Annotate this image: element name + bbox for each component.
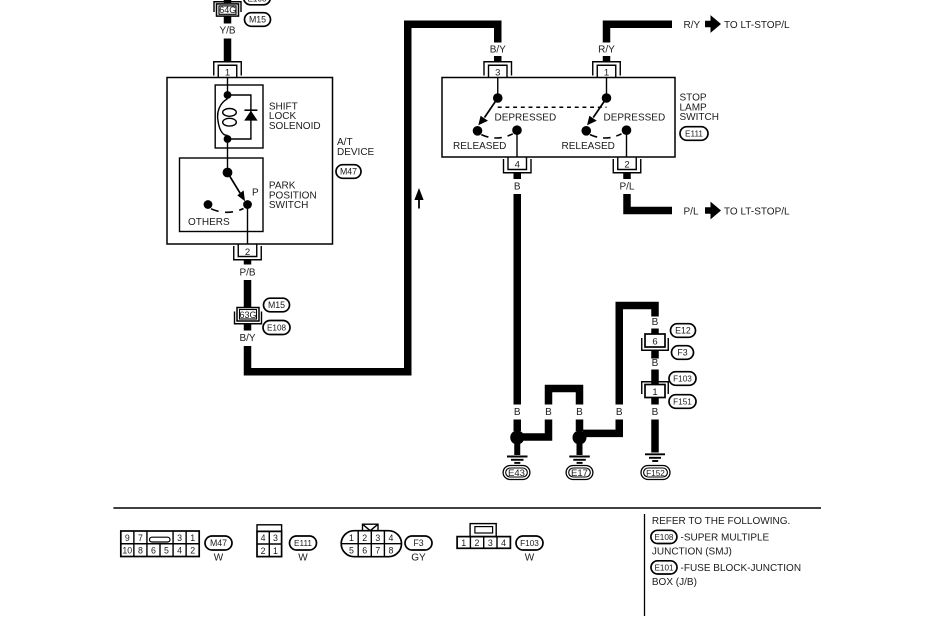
svg-text:JUNCTION (SMJ): JUNCTION (SMJ)	[652, 547, 732, 558]
svg-text:F103: F103	[673, 375, 692, 384]
svg-text:SWITCH: SWITCH	[680, 112, 719, 123]
svg-text:TO LT-STOP/L: TO LT-STOP/L	[724, 20, 790, 31]
svg-text:3: 3	[488, 538, 493, 548]
svg-text:E108: E108	[654, 533, 674, 542]
svg-text:RELEASED: RELEASED	[562, 141, 615, 152]
wire pin1 to solenoid	[227, 78, 229, 96]
svg-text:M47: M47	[340, 167, 357, 177]
node top of solenoid	[224, 91, 232, 99]
svg-text:M15: M15	[268, 300, 285, 310]
svg-text:P/L: P/L	[684, 207, 699, 218]
svg-text:REFER TO THE FOLLOWING.: REFER TO THE FOLLOWING.	[652, 516, 790, 527]
svg-text:5: 5	[164, 546, 169, 556]
svg-text:63G: 63G	[239, 310, 256, 320]
svg-text:4: 4	[177, 546, 182, 556]
wire stub 64G down	[224, 16, 232, 23]
svg-text:R/Y: R/Y	[598, 45, 615, 56]
svg-text:P: P	[252, 188, 259, 199]
connector 63G (SMJ terminal)	[235, 308, 262, 324]
connector E43 oval	[503, 466, 530, 480]
svg-text:-SUPER MULTIPLE: -SUPER MULTIPLE	[681, 533, 770, 544]
connector F3 oval	[672, 346, 694, 360]
connector 64G (SMJ terminal)	[214, 2, 241, 16]
pin 2 connector of stop lamp switch	[613, 157, 641, 173]
connector M47 oval	[336, 165, 361, 179]
wire P/B to 63G	[244, 280, 252, 308]
svg-text:RELEASED: RELEASED	[453, 141, 506, 152]
ground E43	[507, 444, 528, 463]
wire stub to pin 3	[494, 56, 502, 62]
svg-text:4: 4	[515, 160, 520, 171]
svg-text:DEPRESSED: DEPRESSED	[604, 113, 666, 124]
svg-text:1: 1	[190, 533, 195, 543]
svg-text:F3: F3	[677, 348, 687, 358]
switch arm to P	[228, 173, 246, 202]
reference E108 oval	[651, 530, 677, 543]
left contact RELEASED	[473, 126, 483, 136]
svg-text:W: W	[298, 553, 308, 564]
svg-text:1: 1	[461, 538, 466, 548]
connector F152 oval	[641, 466, 670, 480]
wire B down to ground junction	[514, 194, 522, 405]
left contact DEPRESSED	[512, 125, 522, 135]
wire stub pin 2	[244, 260, 252, 265]
svg-text:BOX (J/B): BOX (J/B)	[652, 577, 697, 588]
svg-text:SWITCH: SWITCH	[269, 200, 308, 211]
node bottom of solenoid	[224, 135, 232, 143]
connector M15 oval (63G)	[264, 298, 290, 312]
solenoid coil	[218, 99, 237, 136]
connector M15 oval	[245, 13, 271, 27]
legend connector M47 pinout	[121, 531, 199, 557]
reference block divider	[644, 514, 646, 616]
pin 4 connector of stop lamp switch	[504, 157, 532, 173]
svg-text:1: 1	[349, 533, 354, 543]
svg-text:E101: E101	[654, 564, 674, 573]
svg-text:B/Y: B/Y	[490, 45, 506, 56]
wire P/L bend to right	[627, 194, 672, 211]
svg-text:W: W	[525, 553, 535, 564]
svg-text:5: 5	[349, 546, 354, 556]
svg-text:W: W	[214, 553, 224, 564]
svg-text:3: 3	[177, 533, 182, 543]
svg-text:2: 2	[362, 533, 367, 543]
left switch common node	[493, 93, 503, 103]
pin 3 connector of stop lamp switch	[484, 62, 512, 79]
svg-text:4: 4	[261, 533, 266, 543]
svg-text:2: 2	[475, 538, 480, 548]
arrow to LT-STOP/L (bottom)	[705, 202, 721, 220]
contact OTHERS	[204, 200, 213, 209]
svg-text:10: 10	[122, 546, 132, 556]
wire solenoid to park switch	[227, 139, 229, 173]
svg-text:7: 7	[375, 546, 380, 556]
connector F151 oval	[669, 395, 696, 409]
node E43 junction	[510, 431, 524, 445]
svg-text:DEVICE: DEVICE	[337, 147, 375, 158]
right contact RELEASED	[581, 126, 591, 136]
svg-text:9: 9	[125, 533, 130, 543]
wire E17 to tall branch	[583, 420, 619, 434]
stop lamp switch box	[442, 78, 675, 158]
connector E17 oval	[566, 466, 593, 480]
connector E108 oval (63G)	[263, 321, 290, 335]
wire P to pin 2	[247, 205, 249, 245]
svg-text:B: B	[514, 181, 521, 192]
svg-text:E17: E17	[571, 468, 588, 479]
wire hump to E17 node	[576, 420, 584, 432]
pin 1 connector of A/T device	[214, 62, 242, 79]
legend M47 oval	[205, 536, 232, 550]
dashed throw arc	[211, 209, 244, 213]
svg-text:R/Y: R/Y	[684, 20, 701, 31]
diode branch wire	[228, 95, 251, 139]
wire depressed to pin 4	[516, 130, 518, 157]
right dashed throw arc	[590, 134, 622, 138]
svg-text:6: 6	[151, 546, 156, 556]
wire stub below 63G	[244, 324, 252, 331]
legend F3 oval	[405, 536, 432, 550]
svg-text:4: 4	[389, 533, 394, 543]
diode D1	[244, 110, 257, 120]
wire stub pin 2	[623, 173, 631, 179]
svg-text:TO LT-STOP/L: TO LT-STOP/L	[724, 207, 790, 218]
wire B/Y long run to pin 3	[248, 24, 498, 372]
svg-text:B: B	[652, 358, 659, 369]
svg-text:E43: E43	[508, 468, 525, 479]
dotted mechanical link	[498, 106, 607, 108]
legend E111 oval	[290, 536, 317, 550]
svg-text:E111: E111	[294, 539, 312, 548]
shift lock solenoid box	[215, 85, 263, 148]
right switch: wire pin1 to common	[606, 78, 608, 99]
svg-text:2: 2	[245, 247, 250, 258]
svg-text:B: B	[652, 317, 659, 328]
svg-text:F152: F152	[646, 469, 665, 478]
svg-text:2: 2	[624, 160, 629, 171]
left switch: wire pin3 to common	[497, 78, 499, 99]
svg-text:8: 8	[389, 546, 394, 556]
legend F103 oval	[516, 536, 543, 550]
wire below conn 1	[651, 398, 659, 405]
flow arrow up	[414, 188, 423, 209]
park position switch box	[180, 158, 264, 232]
svg-text:-FUSE BLOCK-JUNCTION: -FUSE BLOCK-JUNCTION	[681, 563, 802, 574]
arrow to LT-STOP/L (top)	[705, 15, 721, 33]
wire stub to pin 1	[603, 56, 611, 62]
pin 2 connector of A/T device	[234, 244, 262, 260]
right switch arm	[587, 98, 606, 125]
wire depressed to pin 2	[626, 130, 628, 157]
svg-text:3: 3	[375, 533, 380, 543]
wire into E43 node	[514, 420, 522, 432]
legend connector F3 pinout	[341, 524, 401, 557]
svg-text:B/Y: B/Y	[239, 333, 255, 344]
wire stub pin 4	[514, 173, 522, 179]
wire conn6 to conn1	[651, 350, 659, 358]
connector E12 oval	[671, 324, 696, 338]
svg-text:2: 2	[261, 546, 266, 556]
svg-text:GY: GY	[411, 553, 426, 564]
svg-text:E111: E111	[685, 130, 703, 139]
svg-text:7: 7	[138, 533, 143, 543]
svg-text:F103: F103	[520, 539, 539, 548]
legend divider line	[113, 507, 821, 509]
svg-text:8: 8	[138, 546, 143, 556]
right switch common node	[602, 93, 612, 103]
connector 6 (E12/F3)	[642, 334, 669, 350]
svg-text:P/B: P/B	[239, 268, 255, 279]
pin 1 connector of stop lamp switch	[593, 62, 621, 79]
svg-text:1: 1	[273, 546, 278, 556]
left switch arm	[478, 98, 497, 125]
wire Y/B to pin 1	[224, 39, 232, 62]
svg-text:B: B	[545, 407, 552, 418]
svg-text:1: 1	[652, 387, 657, 398]
wire stub into conn 1	[651, 370, 659, 385]
svg-text:M47: M47	[210, 538, 227, 548]
node E17 junction	[573, 431, 587, 445]
wire hump	[549, 389, 580, 405]
legend connector E111 pinout	[257, 525, 282, 557]
svg-text:SOLENOID: SOLENOID	[269, 121, 321, 132]
svg-text:P/L: P/L	[619, 181, 634, 192]
svg-text:DEPRESSED: DEPRESSED	[495, 113, 557, 124]
svg-text:F151: F151	[673, 398, 692, 407]
wire stub into conn 6	[651, 329, 659, 335]
reference E101 oval	[651, 561, 677, 574]
wire E43 to hump	[517, 420, 548, 438]
svg-text:B: B	[616, 407, 623, 418]
wire tall branch up and over	[619, 306, 655, 405]
svg-text:2: 2	[190, 546, 195, 556]
svg-text:F3: F3	[413, 538, 423, 548]
ground F152	[645, 454, 665, 461]
svg-text:E108: E108	[267, 324, 287, 333]
svg-text:Y/B: Y/B	[219, 26, 235, 37]
svg-text:3: 3	[273, 533, 278, 543]
wire R/Y branch to pin 1	[607, 24, 673, 42]
svg-text:B: B	[652, 407, 659, 418]
contact P	[243, 200, 252, 209]
node park switch common	[223, 168, 233, 178]
svg-text:6: 6	[652, 336, 657, 347]
svg-text:B: B	[576, 407, 583, 418]
svg-text:M15: M15	[249, 15, 266, 25]
left dashed throw arc	[481, 134, 513, 138]
A/T device box	[167, 78, 333, 245]
legend connector F103 pinout	[457, 524, 510, 549]
svg-text:6: 6	[362, 546, 367, 556]
connector E108 (cut off at top)	[244, 0, 271, 5]
wire to F152 ground	[651, 420, 659, 453]
svg-text:4: 4	[501, 538, 506, 548]
right contact DEPRESSED	[622, 125, 632, 135]
svg-text:E108: E108	[247, 0, 267, 3]
svg-text:64G: 64G	[219, 5, 236, 15]
ground E17	[569, 444, 590, 463]
connector F103 oval	[669, 372, 696, 386]
connector E111 oval	[680, 127, 708, 141]
connector 1 (F103/F151)	[642, 382, 669, 398]
svg-text:E12: E12	[675, 326, 691, 336]
svg-text:OTHERS: OTHERS	[188, 217, 230, 228]
svg-text:B: B	[514, 407, 521, 418]
wire Y/B from SMJ into 64G	[224, 0, 232, 3]
